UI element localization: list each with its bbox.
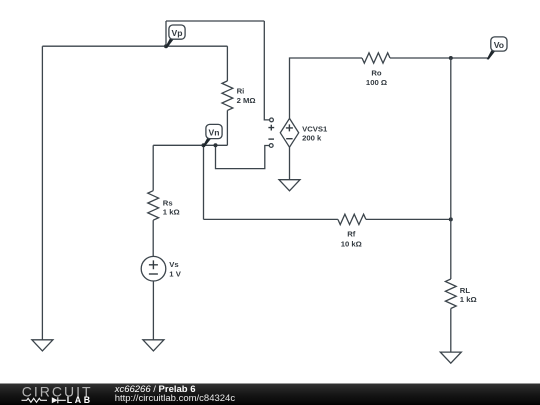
- footer bar: [0, 384, 540, 405]
- junction dot Vo node: [449, 56, 453, 60]
- wire VCVS output top lead: [290, 58, 363, 118]
- VCVS1 plus input sign: [268, 125, 274, 131]
- wire Vp stub vertical: [165, 21, 167, 46]
- wire Vn feedback jog down: [216, 145, 270, 168]
- wire Ri bottom lead: [226, 110, 228, 145]
- Vs minus sign: [149, 273, 158, 275]
- VCVS1 internal minus sign: [286, 138, 292, 140]
- wire VCVS bottom lead: [289, 147, 291, 180]
- svg-text:10 kΩ: 10 kΩ: [341, 239, 362, 248]
- wire Rs top lead: [152, 145, 154, 190]
- resistor Rs: [148, 191, 159, 221]
- voltage source Vs circle: [141, 256, 166, 281]
- wire Ro right lead to Vo node: [390, 57, 488, 59]
- svg-text:http://circuitlab.com/c84324c: http://circuitlab.com/c84324c: [115, 393, 236, 404]
- node flag Vn: [202, 143, 206, 147]
- resistor RL: [445, 279, 456, 309]
- svg-text:LAB: LAB: [67, 395, 93, 405]
- svg-text:Rs: Rs: [163, 198, 173, 207]
- VCVS1 minus input terminal: [269, 144, 273, 148]
- svg-text:Ri: Ri: [237, 86, 245, 95]
- svg-text:1 V: 1 V: [169, 270, 181, 279]
- svg-text:Vp: Vp: [172, 28, 183, 38]
- resistor Ri: [222, 81, 233, 111]
- wire Rf row right segment: [366, 218, 451, 220]
- junction dot Rf-RL node: [449, 217, 453, 221]
- svg-text:1 kΩ: 1 kΩ: [163, 208, 180, 217]
- wire VCVS + input column: [264, 21, 269, 120]
- wire Vs bottom lead: [152, 281, 154, 340]
- svg-text:1 kΩ: 1 kΩ: [460, 295, 477, 304]
- resistor Ro: [362, 53, 390, 63]
- wire top rail from Vp stub to VCVS + input column: [166, 20, 264, 22]
- ground G4 under RL: [440, 352, 461, 363]
- node flag Vp: [164, 44, 168, 48]
- svg-text:Rf: Rf: [347, 230, 356, 239]
- svg-text:Vo: Vo: [494, 40, 504, 50]
- wire left drop to ground: [41, 46, 43, 340]
- wire RL bottom lead: [450, 309, 452, 353]
- ground G1 bottom left: [32, 340, 53, 351]
- wire Vo column down: [450, 58, 452, 279]
- svg-text:Vs: Vs: [169, 260, 178, 269]
- VCVS1 minus input sign: [268, 138, 274, 140]
- svg-text:VCVS1: VCVS1: [302, 124, 328, 133]
- node flag Vo: [487, 50, 496, 59]
- svg-text:2 MΩ: 2 MΩ: [237, 96, 256, 105]
- VCVS1 plus input terminal: [270, 118, 274, 122]
- Vs plus sign: [149, 260, 158, 269]
- wire Vn row horizontal: [153, 144, 227, 146]
- wire Ri top lead: [226, 46, 228, 81]
- dependent source VCVS1 diamond: [280, 118, 298, 147]
- svg-text:Vn: Vn: [209, 128, 220, 138]
- wire Rf row left segment: [204, 218, 338, 220]
- CircuitLab logo squiggle (resistor + diode): [22, 398, 48, 402]
- svg-text:Ro: Ro: [371, 69, 382, 78]
- junction dot Vn node: [214, 143, 218, 147]
- ground G3 under VCVS1: [279, 180, 300, 191]
- resistor Rf: [338, 214, 366, 224]
- wire Rs to Vs lead: [152, 220, 154, 256]
- ground G2 under Vs: [143, 340, 164, 351]
- VCVS1 internal plus sign: [286, 124, 293, 131]
- svg-text:200 k: 200 k: [302, 134, 322, 143]
- svg-text:100 Ω: 100 Ω: [366, 78, 387, 87]
- wire Vp row horizontal: [42, 45, 227, 47]
- wire Vn drop to Rf row: [203, 145, 205, 219]
